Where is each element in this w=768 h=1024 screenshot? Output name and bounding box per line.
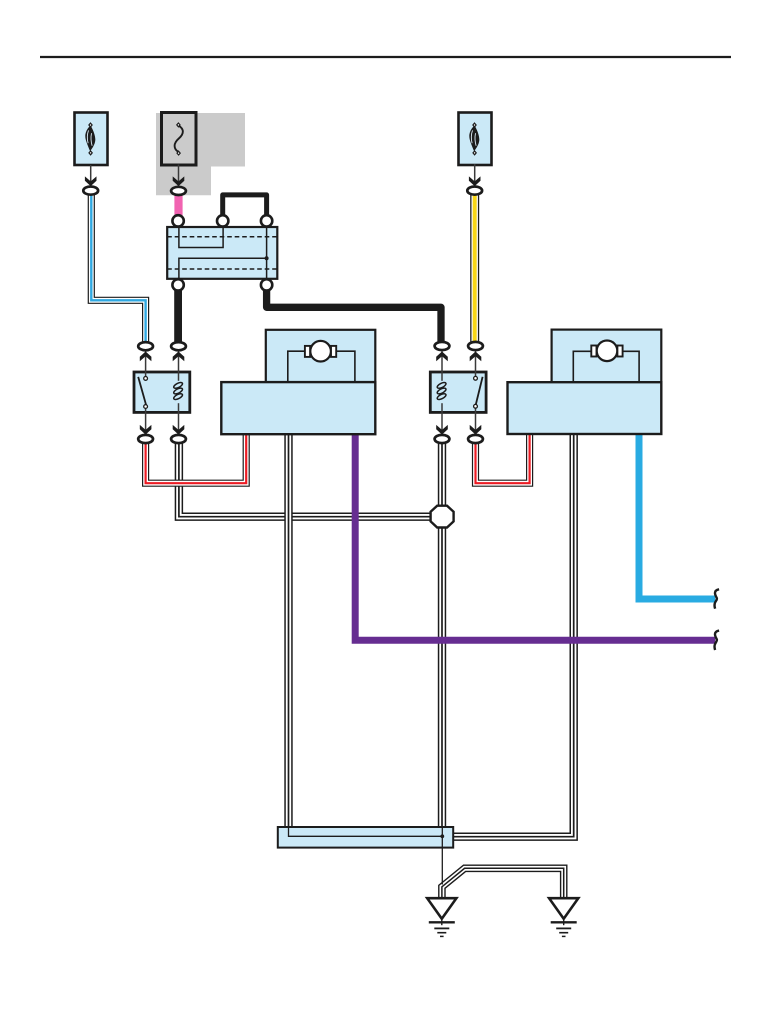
wire white relay 1 to octagon junction	[179, 442, 432, 517]
connector arrows relay bottoms (pointing down)	[140, 425, 152, 435]
relay 1 (switch left / coil right)	[134, 372, 190, 412]
connector ovals relay tops	[138, 342, 153, 350]
fusible link box right	[459, 113, 492, 166]
ground symbol 1	[427, 898, 456, 936]
connector ovals relay bottoms	[138, 435, 153, 443]
wire black junction block to relay 2	[267, 288, 441, 343]
wire black junction block to relay 1	[174, 288, 182, 343]
actuator 2 motor box	[552, 330, 662, 383]
bus junction dot	[440, 834, 444, 838]
wire purple actuator 1 output	[355, 434, 715, 641]
connector arrows below fuses	[85, 176, 97, 186]
motor 2	[597, 341, 618, 362]
wire white ground link	[442, 868, 564, 899]
wire pink (middle fuse to junction block)	[174, 193, 182, 217]
wire white actuator 1 down to ground bus	[284, 434, 292, 831]
wire cyan actuator 2 output	[639, 434, 715, 600]
wire yellow (right fuse to relay 2)	[470, 194, 479, 344]
fusible link box left	[75, 113, 108, 166]
wire blue striped (left fuse to relay 1)	[91, 194, 145, 344]
break squiggle cyan wire	[715, 589, 720, 608]
break squiggle purple wire	[715, 631, 720, 650]
connector arrows relay tops (pointing up)	[140, 352, 152, 362]
wire black jumper on junction block	[223, 195, 267, 222]
relay 2 (coil left / switch right)	[430, 372, 486, 412]
wire red relay 1 to actuator 1	[146, 434, 247, 484]
connector ovals top row	[83, 187, 98, 195]
fuse box middle	[162, 113, 197, 166]
wire white relay 2 down to ground bus	[438, 442, 446, 830]
junction block	[167, 227, 277, 279]
ground symbol 2	[549, 898, 578, 936]
top rule	[40, 56, 731, 58]
gray shading behind middle fuse	[156, 113, 245, 195]
motor 1	[310, 341, 331, 362]
actuator 1 motor box	[266, 330, 376, 382]
wire white actuator 2 down to ground bus	[452, 434, 574, 837]
octagon joint connector	[431, 506, 454, 528]
wire red relay 2 to actuator 2	[476, 434, 530, 484]
junction block connector circles	[172, 215, 183, 226]
ground bus bar	[278, 827, 453, 848]
